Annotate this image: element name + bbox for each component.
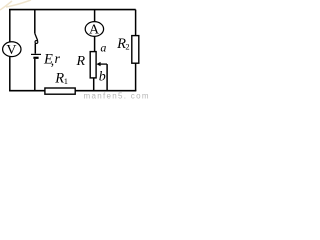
resistor R2 bbox=[132, 36, 139, 64]
rheostat R box bbox=[90, 52, 96, 78]
wire battery branch upper bbox=[34, 10, 36, 34]
watermark top-left swoosh bbox=[0, 0, 31, 10]
wire left upper bbox=[9, 10, 11, 43]
svg-text:R: R bbox=[76, 54, 86, 69]
wire bottom left segment bbox=[9, 90, 45, 92]
svg-text:a: a bbox=[100, 41, 106, 55]
voltmeter V1 bbox=[3, 42, 21, 58]
wire top (node: battery+ to ammeter to R2) bbox=[9, 9, 136, 11]
wire R box to bottom bbox=[93, 78, 95, 91]
svg-text:r: r bbox=[55, 52, 61, 67]
battery E,r long plate bbox=[31, 53, 41, 55]
svg-text:V: V bbox=[6, 43, 16, 58]
svg-text:b: b bbox=[99, 70, 106, 85]
rheostat slider arrow bbox=[96, 62, 107, 66]
svg-text:A: A bbox=[89, 22, 100, 37]
wire right lower bbox=[135, 63, 137, 91]
wire bottom right segment bbox=[75, 90, 136, 92]
svg-text:manfen5. com: manfen5. com bbox=[84, 91, 150, 100]
wire right upper bbox=[135, 10, 137, 36]
wire left lower bbox=[9, 56, 11, 91]
svg-text:1: 1 bbox=[64, 76, 68, 86]
wire switch to battery bbox=[34, 44, 36, 54]
wire ammeter to R bbox=[94, 36, 96, 52]
svg-text:2: 2 bbox=[125, 42, 129, 52]
svg-text:R: R bbox=[54, 71, 64, 87]
switch S bbox=[35, 34, 38, 44]
wire slider to bottom bbox=[106, 64, 108, 91]
resistor R1 bbox=[45, 88, 75, 94]
wire battery to bottom bbox=[34, 59, 36, 91]
wire ammeter branch upper bbox=[94, 10, 96, 22]
battery E,r short plate bbox=[33, 57, 38, 59]
ammeter A1 bbox=[85, 22, 103, 38]
